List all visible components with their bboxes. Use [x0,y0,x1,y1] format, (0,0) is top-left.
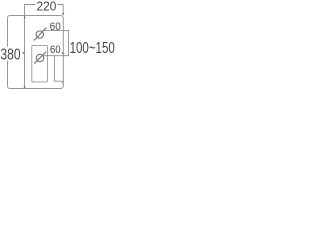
text 380 [0,47,21,61]
upper diameter slash [34,28,46,41]
arrow on 380 line [22,52,25,55]
upper diameter symbol circle [36,31,43,38]
lower diameter slash [34,52,46,64]
upper leader line [44,29,69,31]
lower leader line [42,55,70,57]
svg-text:60: 60 [50,44,61,56]
L-shaped line lower right [54,56,62,83]
text 220 [36,0,58,11]
arrowhead bottom of 380 line [23,86,25,88]
svg-text:60: 60 [50,21,61,33]
plate outline [8,16,64,89]
lower diameter symbol circle [36,54,43,61]
svg-text:220: 220 [37,0,57,13]
background [0,0,115,93]
svg-text:380: 380 [0,47,20,64]
arrow on plate right edge [62,52,64,54]
arrowhead bottom of 220 right hook [62,13,64,15]
arrowhead top of 380 line at plate top edge [24,16,26,18]
svg-text:100~150: 100~150 [70,40,115,57]
hole rectangle [32,45,48,82]
dimension 100~150 bracket [68,30,70,55]
dimension 220 line [25,5,64,89]
